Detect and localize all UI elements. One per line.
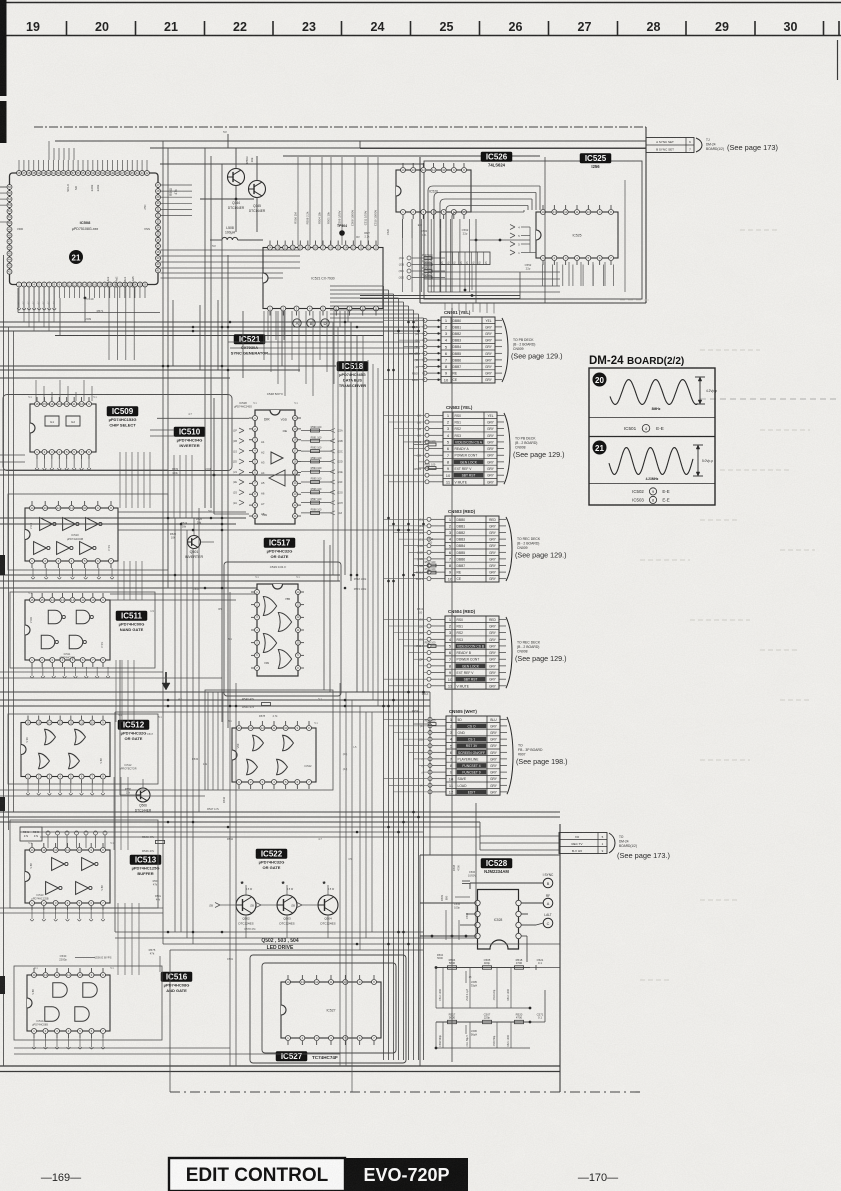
wire left verticals [9,288,19,830]
wire stub 5V top [227,134,229,148]
transistor Q144 [228,169,245,210]
IC IC511 nand gate [25,593,110,667]
ruler tick [685,21,687,36]
waveform 20 amplitude marker [695,377,717,404]
connector CN502 [414,405,564,485]
IC528 output circles [420,873,554,962]
waveform 20 sine [610,380,698,405]
ruler tick [838,21,840,36]
wire bus top horizontal A [55,140,646,142]
cluster box IC516 [14,966,162,1040]
wire rows under IC512 extra [0,789,205,791]
transistor Q501 [185,536,204,559]
label IC521 [231,335,269,356]
wire pin2 to C [521,924,536,926]
IC521 top component stack [294,157,379,245]
right edge mark top [837,40,839,80]
inductor L508 [210,226,263,248]
IC508 right pins [156,183,161,273]
wire to SYNC SET connector [360,141,646,149]
IC527 enclosure inner [262,963,396,1053]
wire rows under IC511 extra [0,671,163,673]
IC IC526 74LS624 [396,163,471,219]
IC508 top pin stubs [19,160,147,171]
ruler tick [204,21,206,36]
resistor R575 label [149,948,160,972]
wire IC521 to IC517 verticals [324,311,357,692]
IC509 bottom stub hooks [35,459,91,470]
waveform 21 IC503 caption [632,496,670,503]
cluster box IC522 [205,690,333,790]
IC511 nand gates [29,610,104,649]
resistor R540 label mid [142,835,164,853]
ruler tick [617,21,619,36]
IC510 inverter triangles [29,518,111,555]
wire hooks below IC516 [32,1038,105,1049]
IC IC510 inverter [25,501,118,568]
connector CN501 [412,310,563,383]
LED drive star marks [240,880,334,891]
wire mid-left verticals [115,141,228,1092]
wire IC508 columns down [60,298,134,360]
title box EDIT CONTROL [169,1158,345,1191]
label IC510 [174,427,205,448]
wire bus y575-581 [0,574,340,576]
wire IC518 pin1 long [157,417,249,419]
IC509 gates [45,416,80,426]
waveform 21 sine [609,448,693,475]
IC IC513 buffer [25,843,110,910]
waveform 21 marker [593,441,607,455]
bottom dashed boundary [170,1091,642,1093]
cluster box IC511 [10,592,155,668]
wire horizontals y342-354 [228,342,420,354]
wire verticals lower right [430,692,480,938]
IC508 top pin labels [66,184,100,192]
wire bus top horizontal C [283,155,540,157]
ruler tick [754,21,756,36]
wire verticals IC521 bottom to IC518 area [264,311,334,396]
RC ladder 2 [435,968,560,1050]
transistor Q504 [318,895,338,925]
junction dot IC508 bottom [84,297,87,300]
connector CN504 [416,609,566,689]
ruler baseline [0,35,841,37]
waveform 20 IC501 caption [624,425,664,433]
IC IC512 or gate [21,716,110,784]
IC IC518 bus transceiver [249,410,301,524]
wire bus y327 [0,326,420,328]
Q501 resistors [170,509,214,542]
cluster box big left outer [4,255,567,1066]
cluster box IC509 [3,395,232,471]
wire IC525 bottom pin verticals [543,265,614,287]
LED drive caption [261,938,298,951]
wire bus top bends [330,286,424,318]
wire bus y322 [0,321,383,323]
wire verticals block bottom to CN501 [445,303,494,314]
wire long verticals x175-205 [175,508,236,1066]
IC508 bottom pin labels CTA [106,276,135,330]
top-right inner box [424,161,642,299]
IC IC528 video amp [475,890,521,950]
wire verticals below IC508 [24,287,54,331]
wire verticals above IC509 [36,380,92,401]
label IC526 [481,152,512,168]
connector XO [559,833,670,861]
IC518 inner labels [261,418,288,518]
wire links bus to CN501 [424,320,426,379]
wire Q144 emitter down [235,186,237,233]
junction dots CN501 rows [437,319,439,381]
IC508 bottom pins [17,282,148,287]
DM-24 panel divider [589,436,715,438]
wire Q145 emitter down [256,198,258,233]
wire rows under IC510 [0,469,168,471]
label IC518L [337,362,368,389]
wire verticals IC522 left [208,692,223,790]
wire IC508 right pins to right [143,185,192,216]
resistor row R503 at CN502 [414,440,436,470]
IC IC509 chip select [30,397,96,459]
label IC528 [481,859,512,875]
wire IC521 bottom to bus verticals [173,300,282,378]
ruler tick [66,21,68,36]
wire Q144 collector [235,148,237,169]
label IC517 [264,538,295,559]
transistor Q503 [277,895,297,925]
capacitor C530 labels [59,954,112,962]
wire hooks below IC512 [26,784,105,795]
resistor cluster above IC522 [242,697,278,718]
wire pin6 stub [466,913,475,915]
wire bus y512-530 [118,511,246,513]
ruler left black bar [0,0,7,96]
waveform 20 marker [593,373,607,387]
label IC525 [580,154,611,170]
scan artifacts [620,230,815,980]
Q506 resistor R550 [120,779,143,795]
IC527 enclosure outer [250,955,406,1063]
wire bus y312 [18,312,160,314]
connector CN505 [418,709,567,795]
wire y199 under transistors [200,198,254,200]
wire IC526 bottom pin verticals [403,219,470,292]
ruler tick [272,21,274,36]
wire bus y250-268 right of IC508 [161,249,301,251]
transistor Q145 [249,181,266,213]
wire pin7 stub [460,924,475,926]
black circle marker 21 [69,250,83,264]
label IC512 [118,720,149,741]
left edge black marks [0,555,5,994]
IC528 left components [440,864,476,940]
wire y514 [214,513,249,515]
faint dashed line right side [700,398,840,400]
resistor rows at CN503 [414,561,436,574]
wire verticals right of IC510 [174,455,192,518]
wire bus y335 [55,335,383,337]
IC508 bottom hooks left group [17,298,56,310]
junction dots on buses [162,321,425,946]
IC IC516 and gate [27,968,110,1038]
test point TP504 [337,224,347,236]
board boundary bottom of top-right block [420,302,646,304]
label IC522 [256,849,287,870]
tiny pin annotations [28,396,318,970]
IC518 type text small [234,401,252,409]
IC512 or gates [25,729,103,769]
resistor R542 label right [207,796,226,811]
wire I SYNC to left [470,882,543,884]
wire pair into resistor array [360,265,520,299]
RC ladder 1 [435,958,544,1009]
IC IC521 sync generator [263,241,383,316]
top-right block left vertical [419,157,421,303]
wire links bus to connectors [384,320,429,792]
resistor rows above CN501 [399,254,445,280]
wire IC526 bottom connections [403,219,469,238]
wire IC525 internals [525,227,536,271]
resistor array box above CN501 [440,252,490,265]
IC521 bottom letter circles [293,319,329,327]
IC508 top pins [17,171,150,176]
component labels top of ladder [437,953,444,960]
transistor Q506 [135,788,152,812]
wire bus top horizontal D [160,163,424,165]
wire rows under IC513 [0,907,163,909]
wire bus y331 [0,330,420,332]
wire IC508 top to bus [49,141,74,160]
wire verticals lower mid [340,683,372,1092]
label IC511 [116,611,147,632]
bottom boundary line 1 [0,1065,560,1067]
cluster box IC512 [8,714,158,784]
waveform 21 amplitude marker [693,445,713,476]
IC518 left input stubs [233,428,244,505]
IC518 right resistor rows [301,426,343,515]
connector CN503 [416,509,567,582]
transistor Q502 [236,895,256,925]
LED drive stub arrows [209,885,328,938]
connector SYNC SET [646,138,778,153]
resistor R552 label [153,879,162,902]
title box EVO-720P [345,1158,468,1191]
board boundary right vertical [645,127,647,303]
cluster box IC510 [8,494,168,570]
bottom boundary line 2 [0,1071,560,1073]
IC525 left input stubs [510,225,530,256]
wire hooks below IC513 [30,910,105,921]
IC516 and gates [31,983,97,1021]
right boundary vertical lower [559,824,561,1092]
cluster box IC513 [10,820,158,908]
wire right verticals top block [476,157,545,303]
IC522 gates [236,735,312,775]
wire pin8 row with junctions [420,935,475,937]
wire bus y810-836 [0,811,560,813]
wire bus y588-600 [0,587,257,589]
wire mesh top-right block [428,180,625,292]
IC IC527 flip flop [281,975,381,1045]
wire hooks below IC510 [31,568,114,579]
board boundary dash-dot top [34,126,646,128]
label IC527 [276,1052,307,1062]
wire IC528 pin4 to A [521,902,543,904]
wire vertical through connectors x452 [451,308,453,1062]
ruler tick [135,21,137,36]
resistor box R541 [20,827,42,841]
ruler tick [410,21,412,36]
ruler top line [0,2,841,4]
resistor rows at CN505 [414,719,436,725]
wire top-left edge stubs [0,187,7,222]
wire pin3 right stub [521,913,528,915]
wire IC521 bottom stubs [268,311,348,340]
ruler tick [479,21,481,36]
wire pin5 row [420,902,475,904]
wire bus top horizontal B [150,147,646,149]
IC517 enclosing box [224,562,341,696]
IC IC508 microcontroller [10,173,159,285]
resistor row R514 at CN504 [414,641,436,647]
wire middle vertical bus [384,286,424,1060]
IC508 bottom pin stubs [19,287,145,298]
ruler tick [548,21,550,36]
wire horizontal pairs y455-470 left [0,430,174,462]
label IC516 [161,972,192,993]
IC IC525 I256 [536,205,618,265]
IC IC517 or gate [251,584,304,676]
wire hooks below IC511 [30,667,110,678]
IC508 left pins [7,185,12,275]
wire rows under IC516 [14,1047,230,1049]
sprinkled small value texts [147,223,434,961]
wire to XO connector [480,836,559,850]
label IC513 [130,855,161,876]
down arrow marker [162,672,170,690]
DM-24 board title [589,355,684,367]
wire pin1 down [521,935,527,937]
wire bus y366-378 [0,365,336,367]
IC513 buffer triangles [29,858,104,895]
resistor R512 trimmer [356,231,370,239]
IC528 enclosure box [420,855,560,1066]
wire bus y930-950 [115,931,423,933]
wire pair right of IC508 [161,272,284,274]
ruler tick [341,21,343,36]
IC513 top stub circles [46,831,107,848]
waveform 21 IC502 caption [632,488,670,495]
wire bus y690-712 [0,691,430,693]
DM-24 waveform box [589,368,715,505]
label IC509 [107,407,138,428]
IC IC522 or gate [232,721,316,789]
ruler tick [823,21,825,36]
wire ladder to right edge [530,967,560,969]
wire IC508 left pins [0,187,7,205]
IC517 gates [263,597,291,669]
wire inter-chip verticals left [114,452,150,975]
left boundary vertical [3,255,5,1066]
DM-24 inner line panel1 [589,417,715,419]
wire y475 junction [0,474,300,476]
wire Q145 collector [256,156,258,181]
wire verticals x330-380 mid [333,322,378,706]
waveform 21 divider [589,483,715,485]
